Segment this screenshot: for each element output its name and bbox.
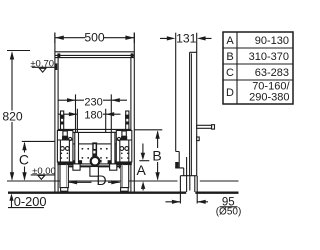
drain circle: [91, 157, 100, 166]
dimension C line: [24, 143, 26, 180]
top bar corner block right: [131, 53, 134, 57]
svg-text:0-200: 0-200: [14, 194, 47, 209]
text labels: [2, 31, 196, 124]
left outer stub tube: [63, 165, 67, 168]
dimension B arrows: [155, 130, 159, 180]
dimension 0-200 underline: [8, 207, 44, 209]
left foot tube: [60, 165, 68, 188]
side view anchor rod: [197, 125, 213, 128]
left bidet bracket: [57, 131, 73, 166]
table: [223, 32, 293, 104]
frame left rail inner: [57, 58, 59, 192]
left foot nut: [61, 188, 68, 192]
dimension 180 ticks: [77, 109, 105, 133]
dimension 180 line: [58, 113, 120, 115]
side view foot leg: [187, 157, 195, 192]
side view profile: [190, 33, 197, 176]
svg-text:63-283: 63-283: [255, 67, 289, 79]
dimension 95 line: [166, 201, 209, 203]
side view profile inner line: [190, 53, 192, 175]
left rod nut: [71, 160, 82, 164]
svg-text:C: C: [226, 67, 234, 79]
dimension B line: [157, 132, 159, 180]
svg-text:(Ø50): (Ø50): [216, 207, 242, 218]
A reference line: [139, 160, 149, 162]
right outer stub tube: [120, 165, 125, 168]
dimension 131 arrows: [167, 36, 206, 40]
frame right rail inner: [130, 58, 132, 192]
svg-text:290-380: 290-380: [249, 92, 289, 104]
side view bracket drop line: [183, 168, 185, 176]
svg-text:820: 820: [2, 110, 23, 124]
level mark 0,70 underline: [32, 66, 55, 68]
left threaded rod: [75, 132, 79, 164]
table letters: [226, 35, 234, 99]
svg-text:C: C: [19, 152, 29, 168]
svg-text:±0,00: ±0,00: [32, 166, 56, 177]
dimension 230 arrows: [67, 98, 120, 102]
dimension 95 arrows: [172, 200, 206, 204]
lower tie band: [63, 165, 126, 167]
dimension 820 arrows: [10, 51, 14, 180]
svg-text:A: A: [226, 35, 234, 47]
svg-text:D: D: [96, 172, 106, 188]
floor line finished: [7, 180, 239, 182]
frame right rail outer: [133, 33, 135, 193]
right rod nut: [108, 160, 119, 164]
side view foot outer / 95 extension lines: [180, 176, 197, 204]
side view fitting square: [197, 137, 200, 141]
svg-text:±0,70: ±0,70: [30, 58, 54, 69]
svg-text:90-130: 90-130: [255, 35, 289, 47]
right foot tube: [121, 165, 129, 188]
wall anchor block on left rail: [55, 63, 58, 70]
right hanger bolt: [126, 111, 129, 131]
dimension A upper arrow: [142, 144, 144, 154]
dimension 180 arrows: [69, 112, 114, 116]
svg-text:500: 500: [84, 31, 105, 45]
raw floor thick line: [8, 191, 239, 193]
dimension 0-200 arrow: [11, 200, 13, 208]
frame left rail outer: [54, 33, 56, 193]
B reference line: [134, 129, 162, 131]
dimension D line: [69, 181, 120, 183]
central drain bolt: [92, 142, 97, 156]
svg-text:180: 180: [84, 109, 102, 121]
level mark 0,00 underline: [31, 174, 55, 176]
frame top bar: [55, 52, 134, 58]
svg-text:230: 230: [84, 96, 102, 108]
dimension 820 line: [11, 53, 13, 180]
level mark 0,00 triangle: [38, 176, 45, 180]
svg-text:D: D: [226, 87, 234, 99]
center plate: [73, 144, 116, 164]
dimension C reference line: [22, 140, 55, 142]
table values: [249, 35, 291, 104]
dimension A lower arrow: [142, 188, 144, 191]
dimension D arrows: [69, 180, 120, 184]
left hanger bolt: [61, 111, 64, 131]
svg-text:310-370: 310-370: [249, 51, 289, 63]
svg-text:B: B: [152, 147, 161, 163]
side view wall line: [175, 33, 177, 152]
right threaded rod: [111, 132, 115, 164]
dimension 95 underline: [220, 206, 238, 208]
crossbar: [58, 129, 131, 132]
left top reference line: [7, 50, 30, 52]
side view lower bracket: [175, 152, 184, 168]
dimension C arrows: [22, 142, 26, 181]
center plate rivets: [82, 148, 108, 159]
level mark 0,70 triangle: [39, 68, 46, 72]
dimension 230 line: [58, 99, 127, 101]
dimension 500 ticks: [55, 33, 134, 44]
right foot nut: [121, 188, 129, 192]
dimension 500 arrows: [55, 36, 134, 40]
svg-text:131: 131: [176, 32, 197, 46]
dimension 230 ticks: [76, 94, 112, 132]
right bidet bracket: [116, 131, 132, 166]
right rod sleeve: [110, 164, 117, 170]
svg-text:B: B: [226, 51, 233, 63]
dimension 500 line: [55, 37, 134, 39]
svg-text:A: A: [137, 162, 147, 178]
dimension 131 line: [160, 37, 212, 39]
drain pipe: [90, 167, 99, 177]
left rod sleeve: [73, 164, 80, 170]
top bar corner block left: [57, 53, 60, 57]
